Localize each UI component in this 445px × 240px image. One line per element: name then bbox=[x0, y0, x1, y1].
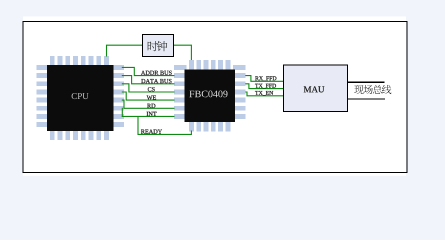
label CS bbox=[148, 87, 155, 91]
label TX_FFD bbox=[255, 84, 276, 89]
wire RX_FFD bbox=[245, 76, 283, 82]
label 现场总线 fieldbus bbox=[354, 85, 391, 94]
IC U1 CPU bbox=[37, 56, 125, 140]
page canvas bbox=[23, 16, 406, 175]
label RX_FFD bbox=[255, 76, 276, 81]
label RD bbox=[147, 104, 155, 108]
wire CS bbox=[122, 84, 175, 92]
label READY bbox=[141, 130, 162, 134]
clock oscillator box 时钟 bbox=[143, 35, 174, 57]
fieldbus line lower bbox=[348, 98, 385, 100]
label WE bbox=[147, 96, 156, 100]
label ADDR BUS bbox=[141, 71, 172, 75]
wire DATA BUS bbox=[122, 76, 175, 84]
wire ADDR BUS bbox=[122, 67, 175, 75]
label TX_EN bbox=[255, 91, 273, 96]
wire READY bbox=[122, 117, 192, 135]
diagram frame bbox=[23, 22, 407, 173]
wire clock XTAL-FBC bbox=[174, 45, 191, 60]
MAU box U3 bbox=[284, 65, 348, 112]
wire RD bbox=[122, 100, 175, 108]
wire TX_FFD bbox=[245, 84, 283, 89]
wire TX_EN bbox=[245, 92, 283, 96]
wire INT bbox=[122, 108, 175, 116]
IC U2 FBC0409 fieldbus controller bbox=[174, 60, 246, 131]
wire WE bbox=[122, 92, 175, 100]
label DATA BUS bbox=[141, 79, 171, 83]
wire clock CPU-XTAL bbox=[107, 45, 143, 56]
fieldbus line upper bbox=[348, 81, 385, 83]
label INT bbox=[147, 112, 157, 116]
